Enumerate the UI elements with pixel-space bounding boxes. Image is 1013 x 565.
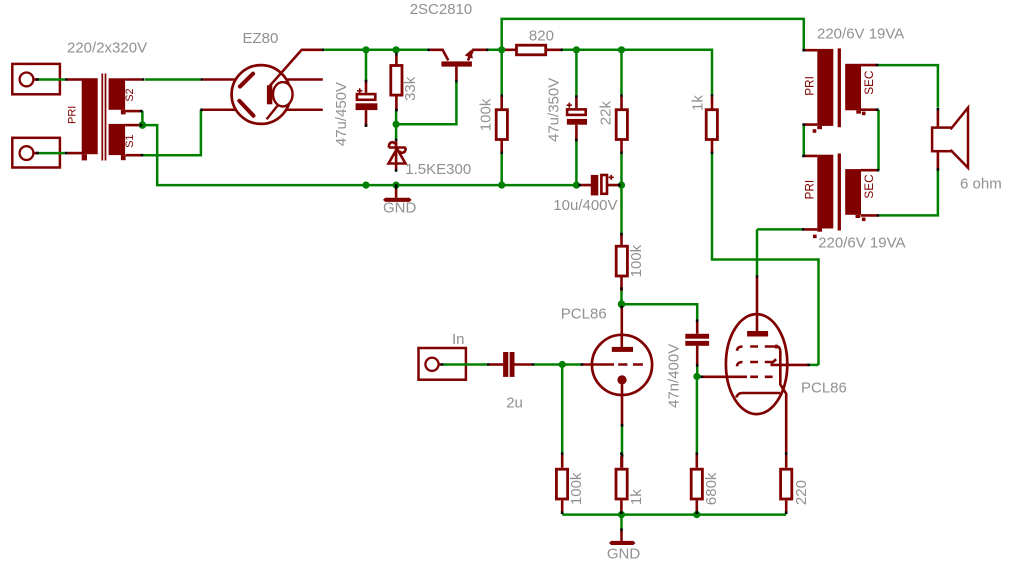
svg-text:SEC: SEC bbox=[862, 70, 876, 95]
svg-text:47n/400V: 47n/400V bbox=[665, 344, 682, 408]
svg-text:220: 220 bbox=[793, 480, 810, 505]
svg-text:820: 820 bbox=[529, 28, 554, 45]
svg-text:In: In bbox=[452, 331, 465, 348]
svg-text:100k: 100k bbox=[628, 244, 645, 277]
svg-text:100k: 100k bbox=[568, 472, 585, 505]
svg-text:PRI: PRI bbox=[802, 180, 816, 200]
svg-text:EZ80: EZ80 bbox=[243, 30, 279, 47]
svg-text:1.5KE300: 1.5KE300 bbox=[405, 161, 471, 178]
svg-text:PRI: PRI bbox=[66, 106, 78, 124]
svg-text:SEC: SEC bbox=[862, 174, 876, 199]
svg-text:220/6V 19VA: 220/6V 19VA bbox=[818, 235, 905, 252]
svg-text:6 ohm: 6 ohm bbox=[960, 176, 1002, 193]
svg-text:10u/400V: 10u/400V bbox=[553, 197, 617, 214]
svg-text:GND: GND bbox=[607, 546, 641, 563]
svg-text:S2: S2 bbox=[124, 88, 136, 101]
svg-text:100k: 100k bbox=[478, 98, 495, 131]
svg-text:220/2x320V: 220/2x320V bbox=[67, 40, 147, 57]
svg-text:33k: 33k bbox=[402, 76, 419, 101]
svg-text:1k: 1k bbox=[628, 489, 645, 505]
svg-text:47u/450V: 47u/450V bbox=[333, 82, 350, 146]
svg-text:2SC2810: 2SC2810 bbox=[410, 1, 473, 18]
svg-text:47u/350V: 47u/350V bbox=[546, 78, 563, 142]
svg-text:PCL86: PCL86 bbox=[561, 306, 607, 323]
svg-text:PCL86: PCL86 bbox=[801, 380, 847, 397]
svg-text:PRI: PRI bbox=[803, 76, 817, 96]
svg-text:1k: 1k bbox=[690, 95, 707, 111]
svg-text:680k: 680k bbox=[703, 472, 720, 505]
svg-text:22k: 22k bbox=[598, 101, 615, 126]
svg-text:S1: S1 bbox=[124, 134, 136, 147]
svg-text:GND: GND bbox=[383, 200, 417, 217]
svg-text:2u: 2u bbox=[506, 395, 523, 412]
svg-text:220/6V 19VA: 220/6V 19VA bbox=[817, 26, 904, 43]
